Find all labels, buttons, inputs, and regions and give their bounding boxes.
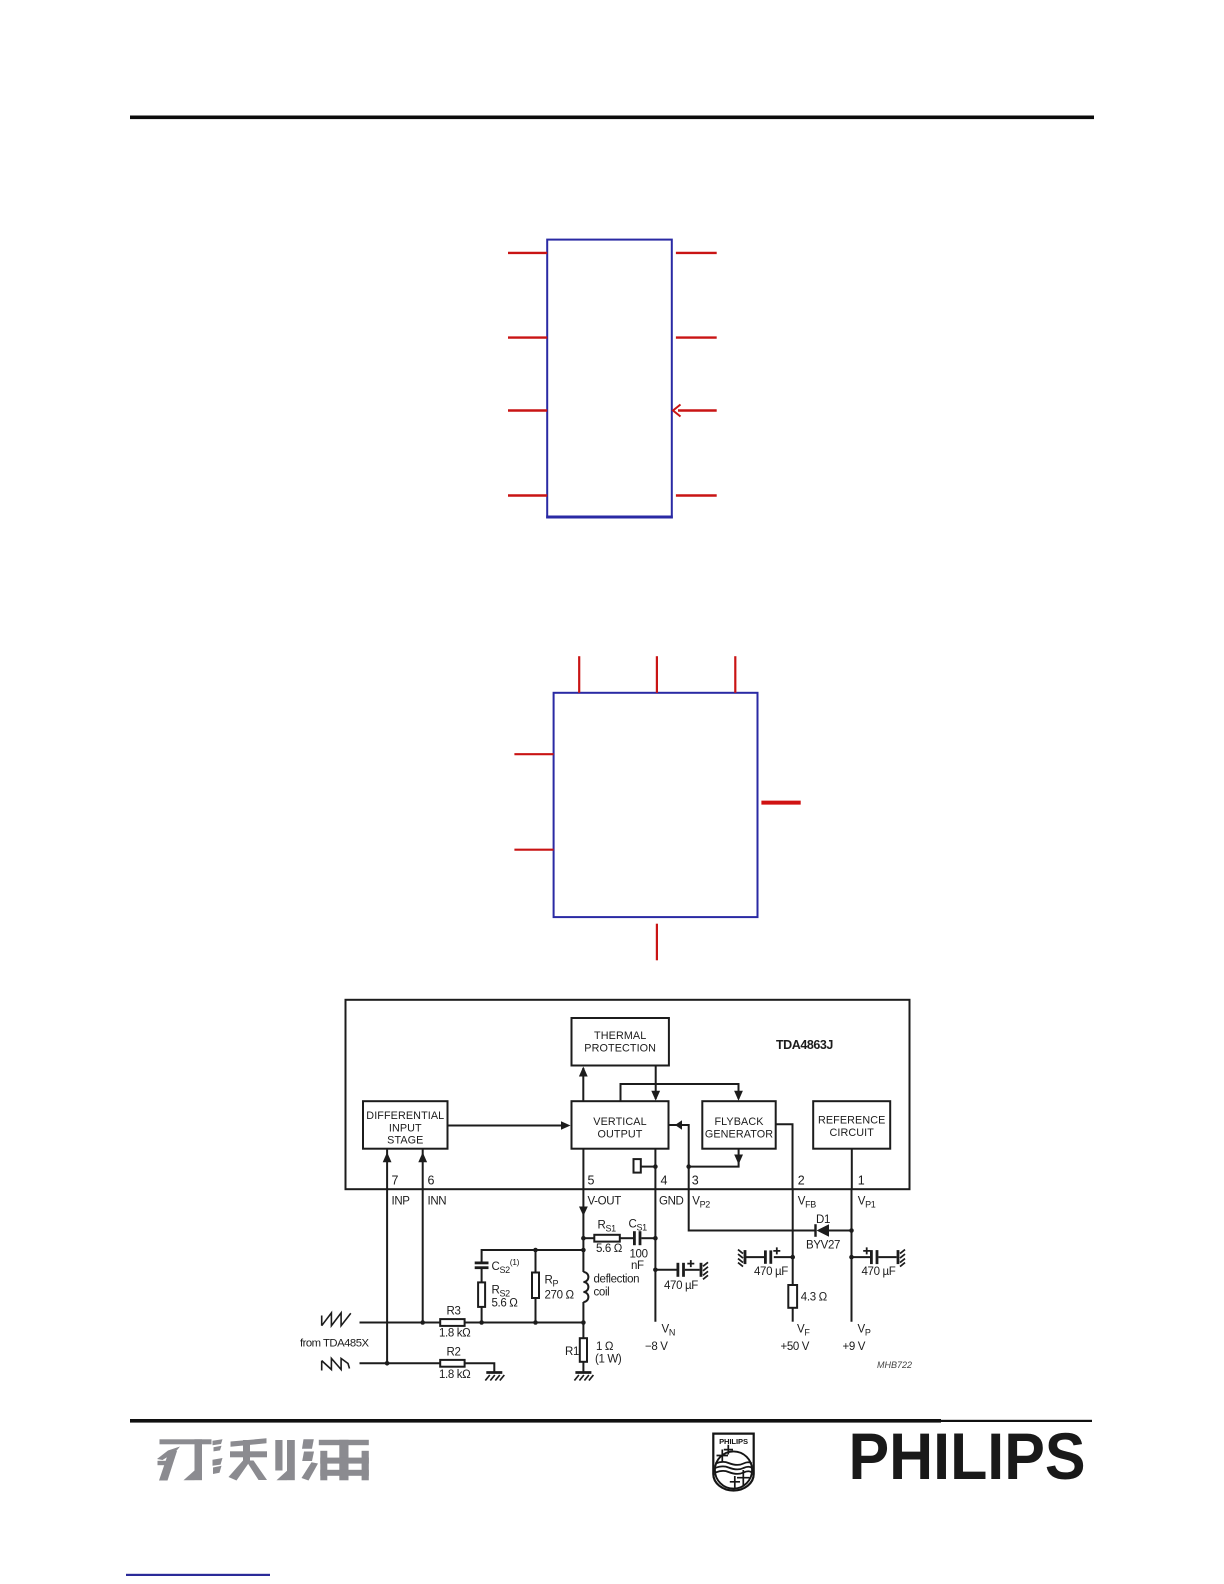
pin 4 lead left bbox=[508, 494, 547, 496]
wire vp1 cap branch bbox=[852, 1256, 871, 1258]
svg-text:DIFFERENTIAL: DIFFERENTIAL bbox=[366, 1110, 444, 1122]
block DIFFERENTIAL INPUT STAGE bbox=[363, 1101, 448, 1149]
ground below R1 bbox=[574, 1373, 593, 1381]
arrowhead down into vertical output bbox=[651, 1091, 660, 1101]
left lead D bbox=[514, 753, 553, 755]
block THERMAL PROTECTION bbox=[572, 1018, 669, 1066]
junction v-out/top-left branch bbox=[581, 1248, 586, 1253]
wire rp top bbox=[535, 1250, 537, 1273]
header rule bbox=[130, 116, 1094, 120]
svg-text:+50 V: +50 V bbox=[781, 1341, 810, 1353]
arrowhead into vertical output (from diff stage) bbox=[561, 1121, 571, 1130]
package outline (pinning diagram, DBS9P) bbox=[547, 240, 672, 518]
svg-text:THERMAL: THERMAL bbox=[594, 1030, 646, 1042]
wire v-out pin down bbox=[582, 1189, 584, 1272]
svg-text:5: 5 bbox=[588, 1174, 595, 1188]
ground left of VFB cap bbox=[738, 1250, 745, 1267]
bottom lead G bbox=[656, 924, 658, 961]
wire r2 to ground bbox=[465, 1363, 495, 1372]
wire flyback feedback to vertical output right edge bbox=[669, 1125, 689, 1167]
footer rule right segment bbox=[941, 1420, 1092, 1422]
svg-text:BYV27: BYV27 bbox=[806, 1240, 840, 1252]
wire vfb cap branch bbox=[774, 1256, 793, 1258]
wire coil to bottom node bbox=[582, 1302, 584, 1338]
resistor RP body bbox=[532, 1273, 539, 1299]
svg-text:100: 100 bbox=[630, 1249, 648, 1261]
junction v-out/rs1 bbox=[581, 1236, 586, 1241]
left lead E bbox=[514, 849, 553, 851]
wire inp pin down to lower rail bbox=[386, 1189, 388, 1363]
wire reference circuit bottom to pin 1 bbox=[851, 1149, 853, 1189]
svg-text:4: 4 bbox=[661, 1174, 668, 1188]
svg-text:coil: coil bbox=[594, 1286, 610, 1298]
junction rs2 bottom bbox=[479, 1320, 484, 1325]
junction vfb/cap bbox=[790, 1255, 795, 1260]
capacitor 470uF plates (VFB) bbox=[764, 1250, 767, 1263]
svg-text:1.8 kΩ: 1.8 kΩ bbox=[439, 1328, 471, 1340]
bottom-left footnote rule bbox=[126, 1574, 270, 1576]
junction inn/upper rail bbox=[420, 1320, 425, 1325]
pin 6 lead right with arrow into package bbox=[673, 405, 717, 417]
wire rs1 branch bbox=[583, 1237, 594, 1239]
resistor 4.3 ohm body bbox=[788, 1285, 797, 1308]
wire sawtooth1 feed line bbox=[360, 1322, 441, 1324]
right thick lead F bbox=[761, 801, 800, 805]
wire sawtooth2 feed line bbox=[360, 1362, 441, 1364]
svg-text:V-OUT: V-OUT bbox=[588, 1196, 622, 1208]
block REFERENCE CIRCUIT bbox=[813, 1101, 890, 1149]
junction vp2 node bbox=[686, 1164, 691, 1169]
wire r3 to coil node bbox=[465, 1322, 584, 1324]
svg-text:R3: R3 bbox=[447, 1305, 461, 1317]
svg-text:GND: GND bbox=[659, 1196, 684, 1208]
substrate connection box bbox=[634, 1159, 641, 1173]
svg-text:+9 V: +9 V bbox=[843, 1341, 866, 1353]
package outline 2 (heatsink mount view) bbox=[554, 693, 758, 917]
svg-text:470 µF: 470 µF bbox=[754, 1266, 788, 1278]
arrowhead down on v-out wire bbox=[579, 1207, 588, 1217]
svg-text:CIRCUIT: CIRCUIT bbox=[829, 1127, 874, 1139]
svg-text:2: 2 bbox=[798, 1174, 805, 1188]
junction cs1/gnd line bbox=[653, 1236, 658, 1241]
wire rs1 to cs1 bbox=[620, 1237, 633, 1239]
wire vp2 run to vp1 line with D1 bbox=[689, 1189, 815, 1231]
arrowhead up into diff stage pin7 bbox=[383, 1152, 392, 1162]
wire thermal protection down to vertical output bbox=[655, 1066, 657, 1100]
junction rp top bbox=[533, 1248, 538, 1253]
svg-text:1 Ω: 1 Ω bbox=[596, 1341, 614, 1353]
sawtooth waveform input 2 bbox=[322, 1358, 350, 1370]
Philips Chinese logo (fei li pu) bbox=[157, 1438, 369, 1480]
svg-text:7: 7 bbox=[392, 1174, 399, 1188]
block FLYBACK GENERATOR bbox=[702, 1101, 775, 1149]
wire R1 to ground bbox=[582, 1362, 584, 1373]
svg-text:PHILIPS: PHILIPS bbox=[849, 1419, 1086, 1493]
svg-text:R1: R1 bbox=[565, 1346, 579, 1358]
pin 7 lead right bbox=[676, 336, 717, 338]
wire pin 6 into diff input stage bbox=[422, 1149, 424, 1189]
svg-text:470 µF: 470 µF bbox=[664, 1280, 698, 1292]
svg-text:−8 V: −8 V bbox=[645, 1341, 668, 1353]
resistor RS2 body bbox=[478, 1282, 485, 1307]
ground below R2 bbox=[485, 1373, 504, 1381]
svg-text:OUTPUT: OUTPUT bbox=[598, 1128, 643, 1140]
wire inn pin down to upper rail bbox=[422, 1189, 424, 1323]
wire substrate box to gnd line bbox=[641, 1166, 656, 1168]
svg-text:1: 1 bbox=[858, 1174, 865, 1188]
resistor R2 body bbox=[440, 1360, 464, 1367]
pin 3 lead left bbox=[508, 409, 547, 411]
arrowhead up into diff stage pin6 bbox=[418, 1152, 427, 1162]
junction inp/lower rail bbox=[385, 1361, 390, 1366]
svg-text:INP: INP bbox=[392, 1196, 411, 1208]
svg-text:PROTECTION: PROTECTION bbox=[584, 1043, 656, 1055]
pin 1 lead left bbox=[508, 252, 547, 254]
footer rule left segment bbox=[130, 1419, 941, 1423]
ground right of VP1 cap bbox=[898, 1250, 905, 1267]
resistor R1 body bbox=[580, 1338, 587, 1362]
capacitor 470uF plates (VP1) bbox=[870, 1250, 873, 1264]
wire pin 5 from vertical output bbox=[582, 1149, 584, 1189]
junction rp bottom bbox=[533, 1320, 538, 1325]
top lead B bbox=[656, 656, 658, 693]
wire top-left branch bbox=[482, 1250, 584, 1262]
plus sign VFB cap bbox=[773, 1247, 780, 1254]
svg-text:D1: D1 bbox=[816, 1214, 830, 1226]
top lead C bbox=[734, 656, 736, 693]
wire cs1 to gnd line bbox=[641, 1237, 655, 1239]
svg-text:R2: R2 bbox=[447, 1347, 461, 1359]
svg-text:3: 3 bbox=[692, 1174, 699, 1188]
resistor R3 body bbox=[440, 1319, 464, 1326]
wire vertical output to flyback generator (over the top) bbox=[621, 1084, 739, 1101]
svg-text:STAGE: STAGE bbox=[387, 1135, 423, 1147]
svg-text:VERTICAL: VERTICAL bbox=[593, 1116, 646, 1128]
wire diff input stage to vertical output bbox=[448, 1125, 568, 1127]
capacitor 470uF plates (VN) bbox=[677, 1263, 680, 1277]
svg-text:5.6 Ω: 5.6 Ω bbox=[596, 1243, 623, 1255]
pin 8 lead right bbox=[676, 252, 717, 254]
wire 4.3 ohm to vf terminal bbox=[792, 1308, 794, 1322]
wire vp1 cap to ground bbox=[878, 1256, 896, 1258]
wire rs2 to bottom node bbox=[481, 1307, 483, 1323]
svg-text:INPUT: INPUT bbox=[389, 1123, 422, 1135]
wire vertical output up to thermal protection bbox=[582, 1068, 584, 1101]
wire pin 4 from vertical output bbox=[654, 1149, 656, 1189]
wire cap branch vn bbox=[655, 1269, 676, 1271]
svg-text:5.6 Ω: 5.6 Ω bbox=[492, 1297, 519, 1309]
svg-text:REFERENCE: REFERENCE bbox=[818, 1115, 886, 1127]
top lead A bbox=[578, 656, 580, 693]
svg-text:FLYBACK: FLYBACK bbox=[714, 1116, 764, 1128]
svg-text:MHB722: MHB722 bbox=[877, 1360, 912, 1370]
svg-text:1.8 kΩ: 1.8 kΩ bbox=[439, 1369, 471, 1381]
capacitor CS2 plates bbox=[475, 1262, 489, 1265]
arrowhead down on flyback bottom wire bbox=[734, 1155, 743, 1165]
svg-text:(1 W): (1 W) bbox=[595, 1353, 622, 1365]
junction d1/vp1 bbox=[849, 1228, 854, 1233]
svg-text:TDA4863J: TDA4863J bbox=[776, 1038, 833, 1052]
plus sign VP1 cap bbox=[863, 1247, 870, 1254]
wire vfb cap to ground bbox=[746, 1256, 764, 1258]
svg-text:GENERATOR: GENERATOR bbox=[705, 1128, 773, 1140]
deflection coil inductor bbox=[583, 1272, 588, 1302]
capacitor CS1 plates bbox=[633, 1231, 636, 1245]
wire flyback generator bottom to vp2 node bbox=[689, 1149, 739, 1167]
svg-text:INN: INN bbox=[428, 1196, 447, 1208]
sawtooth waveform input 1 bbox=[322, 1313, 351, 1326]
svg-text:4.3 Ω: 4.3 Ω bbox=[801, 1291, 828, 1303]
block VERTICAL OUTPUT bbox=[572, 1101, 669, 1149]
arrowhead left into vertical output right edge bbox=[675, 1120, 682, 1130]
junction substrate/gnd bbox=[653, 1164, 658, 1169]
wire cs2 to rs2 bbox=[481, 1269, 483, 1282]
svg-text:nF: nF bbox=[631, 1260, 644, 1272]
wire pin 3 stub bbox=[688, 1167, 690, 1189]
wire vp1 pin down bbox=[851, 1189, 853, 1322]
wire pin 7 into diff input stage bbox=[386, 1149, 388, 1189]
svg-text:from TDA485X: from TDA485X bbox=[300, 1338, 369, 1350]
pin 5 lead right bbox=[676, 494, 717, 496]
wire gnd pin down bbox=[654, 1189, 656, 1322]
svg-text:PHILIPS: PHILIPS bbox=[719, 1437, 748, 1446]
wire vfb pin down bbox=[792, 1189, 794, 1285]
arrowhead down into flyback generator bbox=[734, 1091, 743, 1101]
pin 2 lead left bbox=[508, 336, 547, 338]
resistor RS1 body bbox=[594, 1235, 620, 1242]
junction coil/r1 bbox=[581, 1320, 586, 1325]
svg-text:470 µF: 470 µF bbox=[862, 1266, 896, 1278]
diode D1 BYV27 bbox=[816, 1224, 830, 1237]
plus sign VN cap bbox=[687, 1260, 694, 1267]
wire cap to ground vn bbox=[685, 1269, 700, 1271]
arrowhead up into thermal protection bbox=[579, 1067, 588, 1077]
svg-text:deflection: deflection bbox=[594, 1274, 640, 1286]
wire flyback generator right to pin 2 bbox=[776, 1124, 793, 1189]
ground right of VN cap bbox=[701, 1262, 708, 1279]
junction gnd/cap bbox=[653, 1268, 658, 1273]
wire d1 to vp1 line bbox=[829, 1230, 852, 1232]
junction vp1/cap bbox=[849, 1255, 854, 1260]
wire rp bottom bbox=[535, 1298, 537, 1323]
IC TDA4863J outer boundary bbox=[346, 1000, 910, 1189]
svg-text:6: 6 bbox=[428, 1174, 435, 1188]
Philips shield emblem bbox=[713, 1434, 753, 1491]
svg-text:270 Ω: 270 Ω bbox=[545, 1289, 575, 1301]
package bottom edge bbox=[546, 516, 673, 519]
